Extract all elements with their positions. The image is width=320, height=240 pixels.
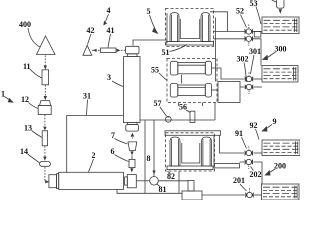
leader 301 <box>251 55 255 74</box>
pipe receiver to valve 302 <box>240 86 245 88</box>
unit 5 left riser <box>166 13 168 43</box>
pump 57 <box>165 116 171 122</box>
svg-text:200: 200 <box>274 162 286 171</box>
unit 82 top bar <box>165 131 221 136</box>
leader 302 <box>244 63 247 83</box>
arrow left on feed 4 <box>93 49 97 52</box>
svg-text:400: 400 <box>19 20 31 29</box>
leader 82 <box>168 171 171 173</box>
label 91 <box>235 129 243 138</box>
label 302 <box>237 55 249 64</box>
label 31 <box>83 92 91 101</box>
svg-text:2: 2 <box>92 151 96 160</box>
leader 7 <box>115 139 128 145</box>
leader 81 <box>157 184 160 186</box>
label 300 <box>275 45 287 54</box>
wire dashed 14 to kiln 2 <box>44 167 46 182</box>
valve 301 <box>245 72 253 82</box>
valve 201 <box>245 188 253 198</box>
trap 56 <box>190 111 195 122</box>
leader 13 <box>32 131 43 138</box>
vessel 55 bottom inner line <box>178 87 206 89</box>
svg-text:202: 202 <box>250 170 262 179</box>
pot 20 neck <box>188 181 194 192</box>
crusher 12 body <box>38 105 51 114</box>
tank 300 <box>262 66 298 83</box>
vessel 55 top inner line <box>178 64 206 66</box>
valve 52 <box>245 25 253 35</box>
label 202 <box>250 170 262 179</box>
wire arrow column to 7 <box>131 133 135 137</box>
wire dashed 12 to 13 <box>44 115 46 127</box>
svg-text:57: 57 <box>154 99 162 108</box>
inter-unit riser <box>215 18 217 82</box>
svg-text:42: 42 <box>87 26 95 35</box>
label 4 <box>107 6 111 15</box>
arrow from 300 <box>268 52 276 58</box>
leader 41 <box>108 34 111 48</box>
svg-text:82: 82 <box>167 172 175 181</box>
flat header <box>214 164 240 168</box>
arrow into 14 <box>43 157 46 161</box>
pipe 31 riser <box>67 116 124 173</box>
kiln 2 right plate <box>125 177 128 185</box>
unit 82 bottom manifold <box>167 166 213 170</box>
svg-text:300: 300 <box>275 45 287 54</box>
label 6 <box>111 147 115 156</box>
pipe valve 52 to tank <box>253 31 263 33</box>
feeder 11 <box>42 70 49 85</box>
label 92 <box>250 121 258 130</box>
pipe valve 302 out <box>254 86 263 88</box>
diagonal feed to nozzle <box>272 0 277 2</box>
vessel 55 top body <box>178 63 206 74</box>
svg-text:41: 41 <box>107 26 115 35</box>
svg-text:31: 31 <box>83 92 91 101</box>
svg-text:52: 52 <box>236 7 244 16</box>
leader 201 <box>240 184 247 191</box>
svg-text:11: 11 <box>23 62 31 71</box>
pot 20 body <box>182 191 202 200</box>
leader 53 <box>256 7 261 25</box>
label 8 <box>147 154 151 163</box>
svg-text:3: 3 <box>107 73 111 82</box>
label 52 <box>236 7 244 16</box>
leader 52 <box>241 15 247 28</box>
label 56 <box>179 103 187 112</box>
label 11 <box>23 62 31 71</box>
valve 302 <box>245 84 253 94</box>
label 1 <box>1 90 5 99</box>
vessel 55 bottom right cap <box>205 84 211 98</box>
leader 6 <box>115 155 129 162</box>
label 13 <box>24 124 32 133</box>
pump 8 <box>150 177 159 186</box>
column top outlet pipe <box>133 40 167 46</box>
arrow right on feed 4 <box>117 49 121 52</box>
label 2 <box>92 151 96 160</box>
valve 202 <box>245 159 253 169</box>
svg-text:51: 51 <box>162 48 170 57</box>
label 81 <box>159 185 167 194</box>
crusher 12 cap <box>40 101 51 106</box>
kiln 2 body <box>59 172 124 189</box>
label 57 <box>154 99 162 108</box>
leader 202 <box>251 167 254 171</box>
leader 400 <box>28 28 40 47</box>
drop pipe from unit 82 <box>178 171 180 193</box>
label 53 <box>250 0 258 8</box>
wire dashed 11 to 12 <box>44 85 46 96</box>
label 200 <box>274 162 286 171</box>
vessel 55 bottom body <box>178 85 206 96</box>
column 3 bottom cap <box>126 125 139 132</box>
svg-text:56: 56 <box>179 103 187 112</box>
valve 91 <box>245 146 253 156</box>
svg-text:9: 9 <box>273 117 277 126</box>
wire dashed 13 to 14 <box>44 146 46 157</box>
pipe valve 53 down to tank 300 <box>253 39 262 66</box>
pipe valve 201 to tank 200 <box>254 194 262 196</box>
kiln bottom drain <box>117 190 182 194</box>
leader 12 <box>29 103 39 109</box>
drain riser x145 <box>144 120 146 193</box>
pipe to valve 52 <box>214 31 246 33</box>
kiln 2 right head box <box>127 175 136 188</box>
label 7 <box>111 131 115 140</box>
receiver box 303 <box>218 82 240 103</box>
hopper 400 (triangle) <box>37 36 56 55</box>
adsorber unit 5 dashed box <box>166 9 214 47</box>
drop line to pump 8 <box>153 120 155 177</box>
svg-text:92: 92 <box>250 121 258 130</box>
svg-text:201: 201 <box>233 176 245 185</box>
svg-text:301: 301 <box>249 47 261 56</box>
label 42 <box>87 26 95 35</box>
sieve 14 <box>40 161 51 166</box>
leader 51 <box>170 45 188 52</box>
unit 82 U pipe <box>182 143 200 163</box>
pipe header to valve 202 <box>240 161 245 163</box>
leader 92 <box>256 129 260 140</box>
wire 7-6 <box>131 155 133 159</box>
unit 5 cylinder right <box>201 13 210 42</box>
leader 57 <box>160 107 167 116</box>
tank 200 <box>262 184 300 200</box>
side pipe down <box>213 135 215 163</box>
pipe pot to valve 201 <box>202 194 245 196</box>
label 14 <box>20 147 28 156</box>
tank top (storage) <box>262 17 299 34</box>
dotted feed line 4 <box>92 49 101 51</box>
unit 82 cylinder right <box>202 137 212 166</box>
wire dashed feed to 11 <box>44 56 46 66</box>
column 3 top cap <box>126 46 140 54</box>
svg-text:8: 8 <box>147 154 151 163</box>
nozzle 42 triangle <box>83 45 92 55</box>
unit 5 top outlet <box>210 12 228 32</box>
pipe vessel to valve 301 <box>212 68 245 79</box>
arrow from 4 <box>106 14 109 22</box>
stub below 55 box right <box>202 103 204 107</box>
svg-text:5: 5 <box>147 7 151 16</box>
label 201 <box>233 176 245 185</box>
label 41 <box>107 26 115 35</box>
leader 55 <box>159 73 167 81</box>
flow arrow on drop line <box>152 171 155 175</box>
riser into receiver <box>214 103 216 121</box>
unit 5 U pipe <box>180 19 199 39</box>
unit 82 dashed box <box>166 133 215 171</box>
kiln 2 left plate <box>57 174 59 189</box>
leader 14 <box>28 154 40 163</box>
feeder 6 <box>129 159 135 167</box>
arrow into 11 <box>44 66 47 70</box>
pipe bar to valve 91 <box>220 135 245 153</box>
pipe valve 91 to tank 9 <box>254 152 263 154</box>
svg-text:13: 13 <box>24 124 32 133</box>
arrow from 5 <box>150 15 156 30</box>
svg-text:12: 12 <box>21 95 29 104</box>
arrow into top tank <box>279 9 282 14</box>
arrow from 1 <box>5 97 11 101</box>
pipe valve 202 down to tank 200 <box>254 162 263 184</box>
vessel 55 bottom left cap <box>170 84 178 98</box>
column 3 body <box>124 57 141 123</box>
svg-text:14: 14 <box>20 147 28 156</box>
label 5 <box>147 7 151 16</box>
unit 5 cylinder left <box>170 13 179 42</box>
magnet 13 <box>42 131 47 146</box>
pipe valve 301 to tank 300 <box>254 78 263 80</box>
pipe kiln head to pump 8 <box>136 180 149 182</box>
leader 42 <box>88 34 92 45</box>
arrow 7 to 6 <box>130 151 133 155</box>
connector between vessels <box>181 75 183 84</box>
pipe pump 8 to pot <box>158 180 188 182</box>
vessel 55 top right cap <box>205 61 211 75</box>
autoclave unit 55 dashed box <box>167 59 217 103</box>
arrow into 13 <box>43 127 46 131</box>
label 9 <box>273 117 277 126</box>
label 55 <box>151 66 159 75</box>
svg-text:4: 4 <box>107 6 111 15</box>
vessel 55 top left cap <box>170 61 178 75</box>
kiln 2 left cap <box>49 175 57 188</box>
tank 9 <box>262 140 300 156</box>
leader 11 <box>30 69 42 78</box>
unit 82 cylinder left <box>170 137 180 166</box>
svg-text:91: 91 <box>235 129 243 138</box>
column 3 bottom neck <box>128 123 138 125</box>
cooler 7 <box>128 142 137 151</box>
svg-text:1: 1 <box>1 90 5 99</box>
leader 2 <box>89 159 94 172</box>
svg-text:7: 7 <box>111 131 115 140</box>
label 82 <box>167 172 175 181</box>
valve 53 <box>245 36 253 46</box>
stub below 55 box left <box>178 103 180 107</box>
pipe to valve 53 <box>214 38 246 40</box>
label 3 <box>107 73 111 82</box>
leader 31 <box>87 100 88 116</box>
column side outlet pipe to pump line <box>140 119 216 121</box>
arrow from 200 <box>270 169 276 173</box>
coupling box before top tank <box>254 32 261 37</box>
label 12 <box>21 95 29 104</box>
svg-text:55: 55 <box>151 66 159 75</box>
leader 3 <box>112 81 123 87</box>
nozzle above top tank <box>277 0 284 8</box>
column 3 top neck <box>128 54 138 57</box>
burner 41 <box>101 48 117 53</box>
svg-text:302: 302 <box>237 55 249 64</box>
svg-text:6: 6 <box>111 147 115 156</box>
arrow into kiln 2 <box>45 180 49 183</box>
pipe vessel bottom to receiver <box>212 89 219 91</box>
unit 5 bottom manifold <box>166 42 214 46</box>
leader 91 <box>242 137 247 149</box>
arrow into 12 <box>44 96 47 100</box>
arrow from 9 <box>267 125 273 129</box>
label 301 <box>249 47 261 56</box>
leader 56 <box>186 110 190 113</box>
label 51 <box>162 48 170 57</box>
arrow 6 into kiln head <box>130 168 133 172</box>
label 400 <box>19 20 31 29</box>
